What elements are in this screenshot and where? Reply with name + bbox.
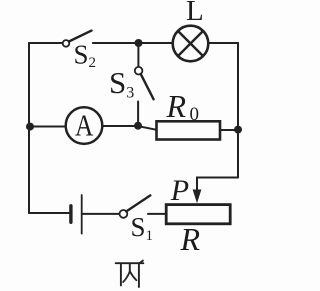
wire junction to R0 (139, 126, 157, 130)
svg-text:L: L (186, 0, 204, 27)
wire top row left segment (29, 42, 63, 44)
wire elbow to slider (197, 178, 238, 190)
switch S2 lever (69, 31, 92, 42)
wire right column (237, 43, 239, 178)
wire R0 to right column (220, 129, 238, 131)
wire left column (28, 43, 30, 213)
wire S3 upper segment (137, 45, 139, 67)
wire S1 to rheostat (148, 213, 166, 215)
wire S3 lower segment (137, 102, 139, 126)
switch S3 contact circle (135, 67, 143, 75)
wire bottom row left segment (29, 212, 69, 214)
wire ammeter to middle junction (102, 125, 138, 127)
node junction middle-right (234, 126, 242, 134)
label caption 丙 (116, 261, 144, 287)
switch S3 lever (141, 74, 154, 99)
battery long plate (positive) (81, 195, 83, 234)
node junction top (S3 top) (135, 39, 143, 47)
svg-text:0: 0 (190, 104, 200, 125)
lamp L circle (173, 26, 209, 62)
switch S2 contact circle (63, 40, 70, 47)
switch S1 contact circle (120, 210, 128, 218)
lamp L cross (178, 31, 203, 56)
svg-text:P: P (170, 174, 189, 207)
rheostat R body (166, 205, 230, 224)
svg-text:R: R (180, 221, 201, 257)
node junction middle-left (26, 123, 34, 131)
wire middle row to ammeter (30, 126, 66, 128)
wire battery to S1 (83, 213, 120, 215)
node junction middle (S3 bottom) (134, 122, 142, 130)
wire top row right segment (208, 42, 238, 44)
svg-text:R: R (166, 88, 187, 124)
svg-text:A: A (75, 109, 94, 143)
battery short plate (negative) (69, 206, 72, 223)
ammeter A circle (66, 107, 103, 144)
wire top row middle segment (93, 42, 173, 44)
resistor R0 body (157, 121, 221, 139)
switch S1 lever (126, 195, 150, 211)
slider arrowhead P (193, 190, 202, 204)
